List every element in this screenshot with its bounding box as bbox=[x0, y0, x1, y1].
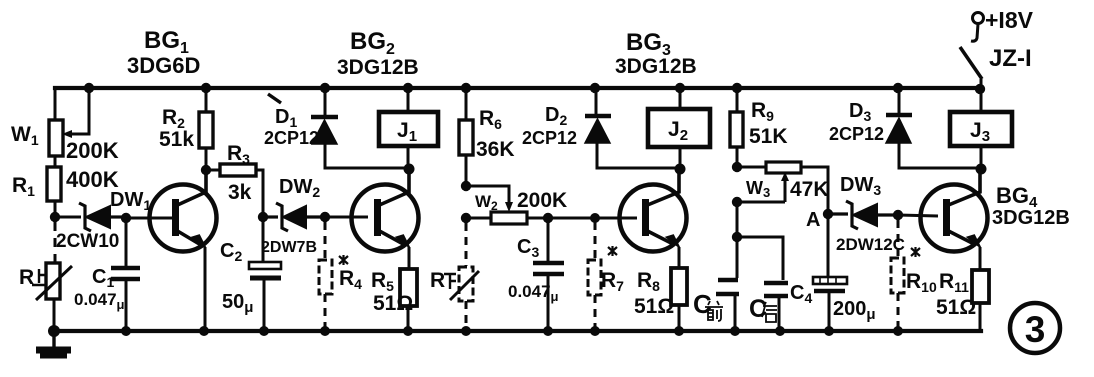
wire left column from top rail to W1 bbox=[54, 88, 57, 120]
svg-text:3DG12B: 3DG12B bbox=[337, 56, 419, 79]
node DW2/R4/BG2 base junction bbox=[320, 212, 330, 222]
resistor R3 bbox=[206, 164, 263, 212]
node Rxia bottom rail junction bbox=[461, 326, 471, 336]
resistor R6 bbox=[459, 88, 473, 186]
resistor R10 (selected at test) bbox=[891, 258, 904, 293]
transistor BG2 bbox=[352, 169, 419, 269]
wire top supply rail bbox=[55, 86, 980, 90]
wire dashed node to R10 bbox=[897, 220, 900, 257]
node W2/C3 junction bbox=[543, 213, 553, 223]
resistor R11 bbox=[972, 270, 989, 331]
svg-text:51Ω: 51Ω bbox=[373, 292, 413, 315]
node J2 top rail junction bbox=[675, 83, 685, 93]
svg-text:47K: 47K bbox=[790, 178, 829, 201]
node R7 base row junction bbox=[590, 213, 600, 223]
svg-text:200K: 200K bbox=[66, 138, 119, 163]
node BG4 collector junction bbox=[976, 164, 987, 175]
node Cqian bottom rail junction bbox=[730, 326, 740, 336]
svg-text:R: R bbox=[430, 269, 445, 292]
node R6/W2 wiper junction bbox=[461, 181, 471, 191]
node BG1 emitter rail junction bbox=[199, 326, 209, 336]
resistor R4 (selected at test) bbox=[319, 260, 332, 294]
node R4 bottom rail junction bbox=[320, 326, 330, 336]
wire dashed node to Rshang bbox=[54, 222, 57, 262]
node C4 bottom rail junction bbox=[824, 326, 834, 336]
node J3 top rail junction bbox=[975, 84, 985, 94]
wire dashed R7 to rail bbox=[594, 295, 597, 331]
relay J3 bbox=[950, 89, 1012, 168]
wire node to BG2 base bbox=[325, 216, 368, 219]
rheostat Rshang (upper limit) bbox=[36, 263, 72, 300]
svg-text:3k: 3k bbox=[228, 181, 252, 204]
node D3 top rail junction bbox=[893, 83, 903, 93]
node R7 bottom rail junction bbox=[590, 326, 600, 336]
node R1/DW1 junction bbox=[50, 212, 60, 222]
capacitor C1 bbox=[111, 218, 140, 331]
svg-text:200K: 200K bbox=[517, 189, 567, 212]
diode D1 bbox=[311, 88, 409, 168]
svg-text:36K: 36K bbox=[476, 138, 515, 161]
svg-text:3: 3 bbox=[1025, 309, 1046, 350]
diode D3 bbox=[886, 88, 981, 168]
resistor R1 bbox=[47, 167, 61, 201]
transistor BG1 bbox=[150, 170, 217, 331]
node R10 bottom rail junction bbox=[893, 326, 903, 336]
svg-text:3DG6D: 3DG6D bbox=[127, 53, 200, 78]
node R2 top rail junction bbox=[201, 83, 211, 93]
capacitor Chou (rear) bbox=[737, 237, 788, 331]
resistor R5 bbox=[400, 269, 417, 331]
svg-text:51Ω: 51Ω bbox=[634, 295, 674, 318]
wire dashed node to R7 bbox=[594, 222, 597, 259]
node W2 left junction bbox=[461, 213, 471, 223]
wire bottom ground rail bbox=[54, 329, 981, 333]
svg-text:+I8V: +I8V bbox=[985, 7, 1034, 33]
capacitor C3 bbox=[533, 218, 564, 331]
wire Rshang to bottom rail bbox=[53, 299, 56, 331]
svg-text:2CP12: 2CP12 bbox=[264, 128, 319, 148]
wire dashed Rxia to rail bbox=[465, 301, 468, 331]
node A bbox=[823, 209, 833, 219]
svg-text:2CW10: 2CW10 bbox=[56, 231, 119, 252]
resistor R7 (selected at test) bbox=[588, 260, 601, 295]
svg-text:R: R bbox=[19, 266, 34, 289]
capacitor C4 bbox=[813, 214, 847, 331]
wire W1 to R1 bbox=[54, 156, 57, 167]
svg-text:3DG12B: 3DG12B bbox=[615, 55, 697, 78]
svg-text:2CP12: 2CP12 bbox=[522, 128, 577, 148]
resistor R2 bbox=[199, 88, 213, 170]
node R2/R3/collector junction bbox=[201, 165, 211, 175]
potentiometer W1 bbox=[49, 90, 89, 156]
wire dashed node to Rxia bbox=[465, 223, 468, 266]
node C2 bottom rail junction bbox=[259, 326, 269, 336]
svg-text:2CP12: 2CP12 bbox=[829, 124, 884, 144]
wire column W3 to Chou branch bbox=[736, 202, 739, 237]
power terminal +18V bbox=[973, 13, 984, 24]
node BG2 collector junction bbox=[404, 164, 415, 175]
node R9 top rail junction bbox=[732, 83, 742, 93]
node ground rail left end bbox=[48, 325, 60, 337]
wire dashed node to R4 bbox=[324, 222, 327, 260]
node DW1/C1 junction bbox=[121, 213, 131, 223]
svg-text:51Ω: 51Ω bbox=[936, 296, 976, 319]
wire R1 to node bbox=[54, 201, 57, 217]
label D1 leader tick bbox=[268, 94, 281, 103]
node D1 top rail junction bbox=[320, 83, 330, 93]
star mark R10 bbox=[911, 247, 920, 257]
capacitor Cqian (front) bbox=[716, 237, 739, 331]
transistor BG4 bbox=[921, 169, 988, 270]
relay J2 bbox=[648, 88, 710, 168]
diode D2 bbox=[585, 88, 680, 168]
node DW3/R10/BG4 base junction bbox=[893, 210, 903, 220]
star mark R4 bbox=[339, 255, 348, 265]
zener diode DW3 bbox=[828, 201, 898, 229]
svg-text:2DW12C: 2DW12C bbox=[836, 235, 905, 254]
potentiometer W2 bbox=[466, 186, 548, 224]
node W3 wiper junction bbox=[732, 197, 742, 207]
wire DW1 node to BG1 base bbox=[126, 217, 173, 220]
node W1 tap rail junction bbox=[84, 83, 94, 93]
figure number 3 bbox=[1010, 303, 1060, 353]
node R6 top rail junction bbox=[461, 83, 471, 93]
resistor R9 bbox=[730, 88, 743, 167]
node Chou branch junction bbox=[732, 232, 742, 242]
node R8 bottom rail junction bbox=[674, 326, 684, 336]
node R5 bottom rail junction bbox=[403, 326, 413, 336]
svg-text:3DG12B: 3DG12B bbox=[992, 207, 1070, 229]
svg-text:2DW7B: 2DW7B bbox=[261, 239, 317, 256]
wire dashed R4 to rail bbox=[324, 294, 327, 331]
node D2 top rail junction bbox=[590, 83, 600, 93]
wire node to DW1 bbox=[55, 216, 81, 219]
resistor R8 bbox=[671, 268, 687, 331]
node W3 left junction bbox=[732, 162, 742, 172]
capacitor C2 bbox=[249, 217, 281, 331]
wire node to BG4 base bbox=[898, 215, 938, 216]
node J1 top rail junction bbox=[403, 83, 413, 93]
zener diode DW1 bbox=[79, 203, 126, 231]
svg-text:51k: 51k bbox=[159, 128, 194, 151]
star mark R7 bbox=[608, 246, 617, 256]
zener diode DW2 bbox=[263, 203, 325, 231]
rheostat Rxia (lower limit) bbox=[450, 267, 479, 301]
node DW2/C2 junction bbox=[258, 212, 268, 222]
svg-text:51K: 51K bbox=[749, 125, 788, 148]
transistor BG3 bbox=[620, 169, 687, 268]
svg-text:JZ-I: JZ-I bbox=[989, 45, 1032, 72]
node C1 bottom rail junction bbox=[121, 326, 131, 336]
svg-text:A: A bbox=[806, 209, 820, 231]
ground symbol bbox=[36, 331, 71, 356]
node BG3 collector junction bbox=[675, 164, 686, 175]
node C3 bottom rail junction bbox=[543, 326, 553, 336]
node Chou bottom rail junction bbox=[775, 326, 785, 336]
relay J1 bbox=[379, 88, 438, 168]
wire node to BG3 base bbox=[548, 217, 637, 220]
switch JZ-1 bbox=[960, 24, 982, 89]
wire dashed R10 to rail bbox=[897, 293, 900, 331]
potentiometer W3 bbox=[737, 162, 828, 214]
